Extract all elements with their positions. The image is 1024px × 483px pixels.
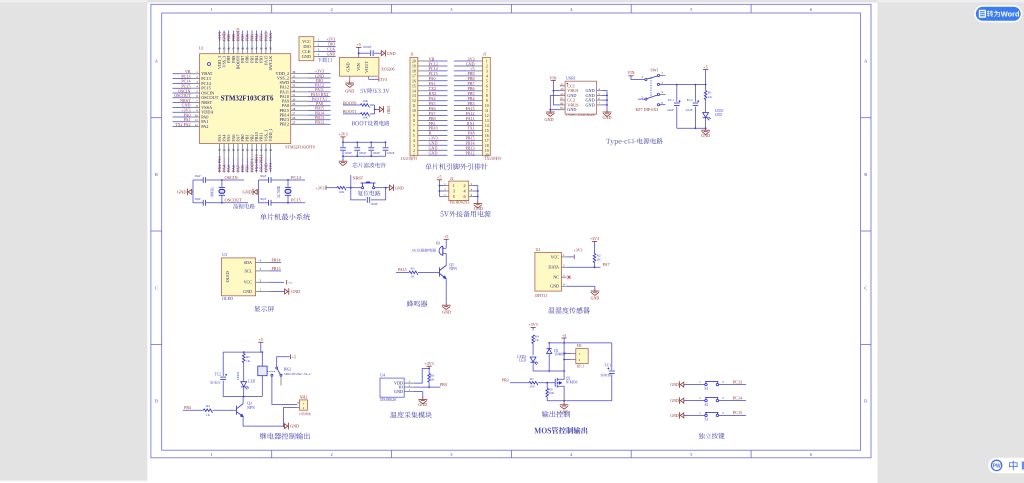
svg-text:15: 15 bbox=[412, 84, 416, 88]
crystal Y1 body bbox=[221, 180, 223, 188]
svg-text:R7: R7 bbox=[530, 377, 534, 381]
resistor R2 1K pullup bbox=[592, 240, 597, 242]
connector J1 1x20 header bbox=[483, 57, 491, 155]
svg-text:B12: B12 bbox=[560, 107, 565, 110]
wire switch output rail bbox=[660, 84, 706, 86]
wire relay NO contact to XH2 bbox=[272, 376, 297, 404]
sensor U2 DHT11 bbox=[535, 252, 562, 291]
sheet border frame bbox=[151, 4, 871, 458]
caption MOS control output bbox=[534, 427, 587, 434]
DHT11 GND bbox=[567, 285, 595, 287]
MCU right pins bbox=[291, 72, 308, 74]
svg-text:OLED: OLED bbox=[222, 296, 233, 301]
regulator U5 XC6206 bbox=[340, 57, 379, 76]
svg-text:100nF: 100nF bbox=[344, 151, 352, 155]
svg-text:5: 5 bbox=[413, 134, 415, 138]
svg-text:SDA: SDA bbox=[244, 260, 252, 265]
OLED GND bbox=[269, 291, 284, 293]
caption temp humidity sensor bbox=[548, 307, 590, 314]
svg-text:USB1: USB1 bbox=[566, 76, 576, 81]
svg-text:11: 11 bbox=[485, 109, 489, 113]
crystal Y2 32.768K group bbox=[257, 180, 259, 203]
svg-text:1K: 1K bbox=[410, 274, 415, 278]
svg-text:EC1: EC1 bbox=[668, 98, 674, 102]
svg-text:29: 29 bbox=[292, 102, 296, 106]
svg-text:GND: GND bbox=[670, 413, 679, 418]
OLED VCC power bbox=[269, 281, 284, 283]
svg-text:10K: 10K bbox=[549, 391, 555, 395]
svg-text:34: 34 bbox=[292, 79, 296, 83]
svg-text:30: 30 bbox=[292, 98, 296, 102]
svg-text:XH2: XH2 bbox=[300, 394, 308, 399]
svg-text:PC15: PC15 bbox=[291, 197, 302, 202]
svg-text:16: 16 bbox=[412, 79, 416, 83]
capacitor 100nF C5 bbox=[385, 142, 387, 147]
power +5 led rail bbox=[703, 69, 708, 71]
svg-text:14: 14 bbox=[412, 89, 416, 93]
svg-text:200: 200 bbox=[529, 385, 534, 389]
wire relay top rail bbox=[223, 351, 262, 353]
svg-text:4: 4 bbox=[413, 139, 415, 143]
svg-text:7: 7 bbox=[486, 89, 488, 93]
svg-text:PW: PW bbox=[993, 463, 1001, 469]
svg-text:10: 10 bbox=[412, 109, 416, 113]
svg-text:27: 27 bbox=[292, 112, 296, 116]
svg-text:PB12: PB12 bbox=[465, 151, 474, 156]
svg-text:NRST: NRST bbox=[353, 176, 364, 181]
connector J2 Pin HD02X3 bbox=[449, 181, 469, 200]
pin 1 marker bbox=[208, 63, 211, 66]
svg-text:+3V3: +3V3 bbox=[315, 185, 324, 190]
svg-text:CLK: CLK bbox=[268, 33, 273, 41]
svg-text:LED: LED bbox=[248, 379, 255, 383]
svg-text:10: 10 bbox=[485, 104, 489, 108]
svg-text:GND: GND bbox=[591, 295, 600, 300]
caption 5V to 3.3V bbox=[360, 88, 389, 93]
svg-text:GND: GND bbox=[243, 289, 252, 294]
svg-text:6: 6 bbox=[486, 84, 488, 88]
svg-text:13: 13 bbox=[485, 119, 489, 123]
svg-text:NPN: NPN bbox=[449, 267, 457, 271]
buzzer emitter to ground bbox=[445, 279, 447, 304]
svg-text:GND: GND bbox=[327, 52, 336, 57]
power +5 relay bbox=[258, 341, 263, 343]
svg-text:2: 2 bbox=[464, 183, 466, 188]
svg-text:C: C bbox=[864, 285, 867, 290]
caption buzzer bbox=[407, 300, 428, 306]
connector H1 interface bbox=[576, 349, 588, 364]
svg-text:GND: GND bbox=[386, 106, 390, 114]
svg-text:PB3: PB3 bbox=[502, 378, 509, 383]
caption 5V aux power bbox=[440, 211, 490, 217]
svg-text:NC: NC bbox=[553, 275, 559, 280]
svg-text:TC1: TC1 bbox=[605, 364, 612, 368]
svg-text:36: 36 bbox=[292, 70, 296, 74]
svg-text:20: 20 bbox=[412, 60, 416, 64]
reset GND bbox=[386, 187, 390, 189]
diode D1 1N4007 bbox=[548, 343, 550, 349]
bottom toolbar bbox=[988, 458, 1024, 474]
resistor 10K reset bbox=[337, 186, 346, 190]
svg-text:7: 7 bbox=[413, 124, 415, 128]
regulator GND pin to ground bbox=[349, 76, 351, 81]
svg-text:100nF: 100nF bbox=[359, 151, 367, 155]
wire led2 to mid rail bbox=[533, 370, 564, 372]
svg-text:U1: U1 bbox=[199, 46, 204, 51]
transistor Q2 NMOS bbox=[510, 382, 529, 384]
LED1 bbox=[705, 100, 707, 113]
svg-text:GND: GND bbox=[586, 102, 595, 107]
svg-text:LED: LED bbox=[715, 113, 722, 117]
svg-text:DHT11: DHT11 bbox=[535, 293, 547, 298]
svg-text:GND: GND bbox=[345, 62, 350, 71]
svg-text:OSCIN: OSCIN bbox=[225, 175, 239, 180]
svg-text:14: 14 bbox=[485, 124, 489, 128]
svg-text:15: 15 bbox=[485, 129, 489, 133]
caption BOOT config bbox=[352, 121, 390, 126]
wire mos top rail bbox=[549, 342, 612, 344]
transistor Q3 NPN relay bbox=[236, 406, 238, 415]
svg-text:STM32F103C8T6: STM32F103C8T6 bbox=[221, 96, 274, 103]
svg-text:C: C bbox=[155, 285, 158, 290]
svg-text:LED: LED bbox=[519, 359, 526, 363]
capacitor EC1 22uF bbox=[676, 85, 678, 102]
caption MCU minimal system bbox=[260, 213, 310, 220]
svg-text:+5: +5 bbox=[444, 234, 448, 239]
svg-text:32: 32 bbox=[292, 88, 296, 92]
svg-text:LED3: LED3 bbox=[236, 372, 240, 381]
regulator VOUT to 3V3 bbox=[368, 76, 370, 79]
svg-text:GND: GND bbox=[395, 185, 404, 190]
capacitor 100nF C4 bbox=[370, 142, 372, 147]
svg-text:19: 19 bbox=[485, 149, 489, 153]
svg-text:17: 17 bbox=[485, 139, 489, 143]
svg-text:30pF: 30pF bbox=[260, 174, 267, 178]
svg-text:100nF: 100nF bbox=[387, 151, 395, 155]
svg-text:100nF: 100nF bbox=[370, 202, 378, 206]
caption display bbox=[254, 306, 274, 312]
svg-text:3: 3 bbox=[486, 69, 488, 73]
svg-text:1K: 1K bbox=[206, 413, 211, 417]
svg-text:2: 2 bbox=[579, 358, 581, 362]
svg-text:17: 17 bbox=[412, 74, 416, 78]
svg-text:+3V3: +3V3 bbox=[425, 361, 434, 366]
svg-text:STM32F103C8T6: STM32F103C8T6 bbox=[285, 145, 315, 150]
svg-text:I1: I1 bbox=[411, 52, 414, 57]
switch levers bbox=[647, 76, 658, 79]
capacitor EC2 22uF bbox=[694, 85, 696, 102]
svg-text:R4: R4 bbox=[206, 404, 210, 408]
svg-text:NPN: NPN bbox=[247, 406, 255, 410]
svg-text:100nF: 100nF bbox=[372, 151, 380, 155]
svg-text:1: 1 bbox=[211, 452, 213, 457]
capacitor 100nF C2 bbox=[342, 142, 344, 147]
connector USB1 Type-C bbox=[565, 81, 597, 114]
svg-text:S2: S2 bbox=[705, 403, 709, 407]
svg-text:100nF: 100nF bbox=[363, 45, 372, 49]
svg-text:18: 18 bbox=[412, 69, 416, 73]
svg-text:10: 10 bbox=[195, 113, 199, 117]
svg-text:+5: +5 bbox=[703, 64, 707, 69]
svg-text:12: 12 bbox=[412, 99, 416, 103]
svg-text:+3V3: +3V3 bbox=[529, 322, 538, 327]
svg-text:VDD_1: VDD_1 bbox=[268, 128, 273, 141]
svg-text:9: 9 bbox=[413, 114, 415, 118]
caption independent buttons bbox=[698, 433, 724, 439]
resistor R5 1K bbox=[243, 352, 245, 353]
capacitor 100nF reset bbox=[351, 188, 366, 200]
svg-text:PB14: PB14 bbox=[272, 258, 281, 263]
svg-text:B: B bbox=[864, 172, 867, 177]
svg-text:16: 16 bbox=[485, 134, 489, 138]
svg-text:3V3: 3V3 bbox=[380, 77, 387, 82]
wire filter bottom rail bbox=[343, 155, 386, 157]
svg-text:6: 6 bbox=[413, 129, 415, 133]
svg-text:PB12: PB12 bbox=[280, 122, 290, 127]
svg-text:GND: GND bbox=[670, 398, 679, 403]
svg-text:J2: J2 bbox=[450, 176, 454, 181]
transistor Q1 NPN bbox=[439, 267, 441, 276]
svg-text:VIN: VIN bbox=[549, 75, 556, 80]
svg-text:+3V3: +3V3 bbox=[573, 248, 582, 253]
svg-text:+5: +5 bbox=[259, 337, 263, 342]
svg-text:GND: GND bbox=[418, 402, 427, 407]
svg-text:PA2: PA2 bbox=[201, 124, 208, 129]
DHT11 DATA wire PA7 bbox=[567, 266, 601, 268]
svg-text:GND: GND bbox=[394, 389, 403, 394]
svg-text:TC2: TC2 bbox=[215, 373, 222, 377]
svg-text:Word: Word bbox=[1001, 9, 1020, 18]
svg-text:A12: A12 bbox=[560, 93, 565, 96]
caption temperature module bbox=[390, 412, 432, 419]
svg-text:PB12: PB12 bbox=[315, 120, 324, 125]
svg-text:GND: GND bbox=[242, 189, 252, 194]
node NRST bbox=[350, 175, 352, 188]
MCU left pins bbox=[191, 73, 200, 75]
svg-text:VIN: VIN bbox=[627, 70, 634, 75]
svg-text:+5: +5 bbox=[562, 333, 566, 338]
MCU top pins bbox=[218, 42, 220, 54]
svg-text:TX2 PA2: TX2 PA2 bbox=[175, 122, 190, 127]
svg-text:VIN: VIN bbox=[356, 63, 361, 71]
svg-text:22uF: 22uF bbox=[667, 108, 674, 112]
svg-text:2: 2 bbox=[330, 452, 332, 457]
svg-text:30pF: 30pF bbox=[260, 197, 267, 201]
svg-text:Pin HD02X3: Pin HD02X3 bbox=[450, 200, 470, 204]
caption output control bbox=[542, 411, 570, 418]
toolbar language icon bbox=[1009, 460, 1017, 470]
resistor R4 1K mos led bbox=[532, 335, 535, 344]
svg-text:DATA: DATA bbox=[548, 265, 559, 270]
svg-text:S3: S3 bbox=[705, 418, 709, 422]
caption crystal circuit bbox=[233, 204, 254, 209]
ground typec led bbox=[705, 128, 707, 130]
svg-text:5: 5 bbox=[453, 194, 455, 199]
svg-text:PA7: PA7 bbox=[603, 262, 610, 267]
svg-text:OLED: OLED bbox=[225, 271, 230, 282]
svg-text:11: 11 bbox=[195, 118, 198, 122]
svg-text:8: 8 bbox=[486, 94, 488, 98]
svg-text:VOUT: VOUT bbox=[364, 61, 369, 73]
wire filter top rail bbox=[343, 141, 386, 143]
svg-text:10K: 10K bbox=[339, 190, 345, 194]
svg-text:25: 25 bbox=[292, 121, 296, 125]
svg-text:PB0: PB0 bbox=[440, 382, 447, 387]
svg-text:B: B bbox=[155, 172, 158, 177]
svg-text:2: 2 bbox=[330, 7, 332, 12]
svg-text:1: 1 bbox=[486, 60, 488, 64]
svg-text:OSCOUT: OSCOUT bbox=[225, 197, 243, 202]
svg-text:GND: GND bbox=[387, 51, 396, 56]
svg-text:DS18B20: DS18B20 bbox=[380, 397, 396, 402]
svg-text:1K: 1K bbox=[535, 338, 540, 342]
svg-text:PB13: PB13 bbox=[272, 266, 281, 271]
svg-text:SW1: SW1 bbox=[651, 68, 659, 73]
svg-text:PA15: PA15 bbox=[398, 267, 407, 272]
svg-text:VCC: VCC bbox=[244, 280, 253, 285]
wire bottom rail typec bbox=[677, 127, 706, 129]
svg-text:5: 5 bbox=[486, 79, 488, 83]
caption MCU pin headers bbox=[425, 163, 488, 169]
svg-text:GND: GND bbox=[602, 115, 611, 120]
svg-text:4: 4 bbox=[486, 74, 488, 78]
power +3V3 filter rail bbox=[340, 136, 345, 138]
crystal Y1 8MHz group bbox=[192, 180, 194, 203]
svg-text:R3: R3 bbox=[411, 266, 415, 270]
svg-text:H1: H1 bbox=[577, 343, 582, 348]
power +5 aux bbox=[437, 179, 442, 181]
svg-text:PC14: PC14 bbox=[733, 395, 743, 400]
power +3V3 ds18b20 bbox=[427, 365, 432, 367]
svg-text:35: 35 bbox=[292, 74, 296, 78]
capacitor 100nF at regulator bbox=[359, 52, 370, 54]
caption chip filter caps bbox=[352, 162, 385, 167]
svg-text:12: 12 bbox=[195, 123, 199, 127]
svg-text:PC14: PC14 bbox=[291, 175, 302, 180]
svg-text:GND: GND bbox=[291, 289, 300, 294]
svg-text:11: 11 bbox=[412, 104, 416, 108]
svg-text:SRD-05VDC-SL-C: SRD-05VDC-SL-C bbox=[284, 372, 312, 376]
wire relay mid rail bbox=[223, 396, 262, 398]
MCU bottom pins bbox=[218, 144, 220, 158]
svg-text:U2: U2 bbox=[536, 247, 541, 252]
wire mos bottom rail bbox=[547, 400, 612, 402]
connector P1 download port bbox=[299, 37, 314, 61]
capacitor TC2 tantalum bbox=[222, 352, 224, 376]
svg-text:PC15: PC15 bbox=[733, 410, 742, 415]
svg-text:GND: GND bbox=[302, 54, 311, 59]
svg-text:19: 19 bbox=[412, 65, 416, 69]
svg-text:+3V3: +3V3 bbox=[338, 132, 347, 137]
svg-text:10K: 10K bbox=[362, 116, 368, 120]
svg-text:S1: S1 bbox=[705, 387, 709, 391]
resistor R9 10K gate bbox=[546, 383, 548, 389]
connector I1 1x20 header bbox=[410, 57, 418, 155]
svg-text:3: 3 bbox=[413, 144, 415, 148]
aux ground rail bbox=[477, 186, 479, 203]
toolbar PW icon bbox=[991, 460, 1001, 470]
svg-text:RK2: RK2 bbox=[284, 367, 291, 371]
svg-text:KF7 DIP-6X3: KF7 DIP-6X3 bbox=[636, 107, 659, 112]
usb ground rail to earth bbox=[550, 94, 560, 96]
wire relay bottom rail to GND bbox=[243, 425, 284, 427]
svg-text:28: 28 bbox=[292, 107, 296, 111]
ground filter caps bbox=[342, 156, 344, 160]
svg-text:GND: GND bbox=[701, 133, 710, 138]
svg-text:6: 6 bbox=[464, 194, 466, 199]
svg-text:GND: GND bbox=[670, 382, 679, 387]
svg-text:1: 1 bbox=[303, 401, 305, 405]
svg-text:GND: GND bbox=[442, 309, 451, 314]
svg-text:32.768K: 32.768K bbox=[277, 185, 281, 198]
svg-text:+5: +5 bbox=[292, 354, 296, 359]
page background bbox=[147, 3, 877, 483]
svg-text:1: 1 bbox=[211, 7, 213, 12]
svg-text:GND: GND bbox=[429, 151, 438, 156]
capacitor 100nF C3 bbox=[356, 142, 358, 147]
crystal Y2 body bbox=[287, 180, 289, 188]
svg-text:PB4: PB4 bbox=[184, 405, 191, 410]
svg-text:1: 1 bbox=[413, 154, 415, 158]
power +3V3 mos bbox=[531, 326, 536, 328]
svg-text:BOOT0: BOOT0 bbox=[343, 100, 357, 105]
svg-text:2: 2 bbox=[486, 65, 488, 69]
svg-text:R1: R1 bbox=[708, 90, 712, 94]
svg-text:2: 2 bbox=[413, 149, 415, 153]
DHT11 NC pin no-connect X bbox=[568, 276, 571, 279]
ds18b20 GND bbox=[414, 391, 423, 393]
wire BOOT junction to GND bbox=[374, 105, 376, 114]
svg-text:30pF: 30pF bbox=[194, 197, 201, 201]
svg-text:J1: J1 bbox=[483, 52, 487, 57]
svg-text:U4: U4 bbox=[380, 372, 385, 377]
svg-text:1: 1 bbox=[579, 352, 581, 356]
svg-text:8: 8 bbox=[413, 119, 415, 123]
svg-text:GND: GND bbox=[345, 89, 354, 94]
caption download port bbox=[317, 58, 332, 63]
resistor R6 1K ds pullup bbox=[428, 369, 430, 374]
svg-text:PC13: PC13 bbox=[733, 379, 742, 384]
svg-text:TYPEC-250D-BGP6: TYPEC-250D-BGP6 bbox=[566, 113, 595, 117]
DHT11 VCC to +3V3 bbox=[567, 256, 574, 258]
relay RK2 coil bbox=[261, 352, 263, 366]
svg-text:XC6206: XC6206 bbox=[381, 66, 395, 71]
svg-text:GND: GND bbox=[544, 117, 553, 122]
relay contacts bbox=[267, 370, 275, 372]
svg-text:1K: 1K bbox=[246, 359, 251, 363]
capacitor TC1 tantalum bbox=[611, 343, 613, 370]
svg-text:GND: GND bbox=[567, 107, 576, 112]
svg-text:31: 31 bbox=[292, 93, 296, 97]
svg-text:GND: GND bbox=[177, 189, 187, 194]
svg-text:3: 3 bbox=[453, 189, 455, 194]
ground mos bbox=[563, 401, 565, 404]
svg-text:EC2: EC2 bbox=[687, 98, 693, 102]
svg-text:1K: 1K bbox=[430, 377, 435, 381]
svg-text:12: 12 bbox=[485, 114, 489, 118]
svg-text:+3V3: +3V3 bbox=[590, 236, 599, 241]
svg-text:GND: GND bbox=[290, 424, 299, 429]
svg-text:GND: GND bbox=[550, 284, 559, 289]
resistor R1 1K bbox=[704, 91, 707, 100]
svg-text:18: 18 bbox=[485, 144, 489, 148]
caption reset circuit bbox=[358, 191, 381, 196]
svg-text:26: 26 bbox=[292, 116, 296, 120]
button convert to Word bbox=[975, 6, 1022, 22]
svg-text:13: 13 bbox=[412, 94, 416, 98]
svg-text:GND: GND bbox=[474, 206, 483, 211]
power +5 into regulator bbox=[356, 46, 361, 48]
